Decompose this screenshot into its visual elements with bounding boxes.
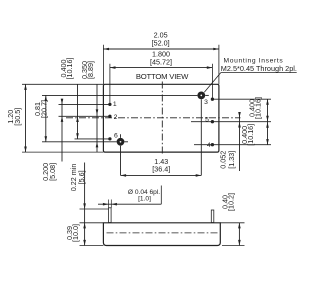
side view centerline xyxy=(107,232,219,234)
vertical centerline xyxy=(161,82,163,155)
svg-text:[36.4]: [36.4] xyxy=(152,165,170,174)
svg-text:BOTTOM VIEW: BOTTOM VIEW xyxy=(136,72,189,81)
extension pin top left xyxy=(80,208,109,210)
pin 2 row line xyxy=(59,115,110,117)
pin 4 dot xyxy=(211,143,214,146)
pin 1 row line xyxy=(59,103,110,105)
pin 6 dot xyxy=(108,137,111,140)
svg-text:1: 1 xyxy=(113,101,117,108)
svg-text:[52.0]: [52.0] xyxy=(152,38,170,47)
side view right pin xyxy=(211,210,214,223)
svg-text:[20.7]: [20.7] xyxy=(40,100,49,118)
pin 6 row line xyxy=(75,138,110,140)
pin diameter witness line left xyxy=(108,200,110,208)
leader to insert xyxy=(204,73,221,93)
svg-text:[5.08]: [5.08] xyxy=(48,163,57,181)
insert top row extension line xyxy=(42,94,197,96)
pin 4 row line xyxy=(194,144,271,146)
extension line right xyxy=(218,45,220,85)
pin diameter witness line right xyxy=(110,200,112,208)
extension body top right xyxy=(220,222,244,224)
svg-text:[10.2]: [10.2] xyxy=(227,193,236,211)
svg-text:[10.16]: [10.16] xyxy=(246,124,255,146)
svg-text:3: 3 xyxy=(204,99,208,106)
svg-text:[8.89]: [8.89] xyxy=(86,61,95,79)
extension body bottom right xyxy=(222,245,245,247)
pin 5 dot xyxy=(211,120,214,123)
svg-text:M2.5*0.45 Through 2pl.: M2.5*0.45 Through 2pl. xyxy=(221,64,297,73)
side view left pin xyxy=(109,208,112,223)
note underline xyxy=(221,72,297,74)
insert bottom row extension line xyxy=(42,141,117,143)
pin 5 row line xyxy=(191,121,271,123)
svg-text:[10.16]: [10.16] xyxy=(65,58,74,80)
extension to pin 1 xyxy=(109,64,111,103)
mounting insert bottom-left xyxy=(117,138,125,146)
extension body top left xyxy=(80,222,104,224)
mounting insert top-right xyxy=(197,92,205,100)
horizontal centerline xyxy=(66,117,241,119)
svg-text:6: 6 xyxy=(114,132,118,139)
extension rect top left xyxy=(22,83,103,85)
extension to pin 3 xyxy=(211,64,213,98)
leader vertical xyxy=(160,186,162,205)
insert top right stub xyxy=(205,94,209,96)
pin 3 dot xyxy=(211,98,214,101)
pin 2 dot xyxy=(108,115,111,118)
svg-text:[1.33]: [1.33] xyxy=(227,151,236,169)
insert bottom right stub xyxy=(124,141,128,143)
insert bottom top stub xyxy=(120,134,122,138)
extension body bottom left xyxy=(80,245,104,247)
svg-text:[10.0]: [10.0] xyxy=(71,224,80,242)
svg-text:4: 4 xyxy=(207,142,211,149)
extension rect bottom left xyxy=(22,151,103,153)
svg-text:[30.5]: [30.5] xyxy=(13,108,22,126)
insert top vertical extension xyxy=(200,99,202,175)
svg-text:[10.16]: [10.16] xyxy=(253,97,262,119)
svg-text:2: 2 xyxy=(114,114,118,121)
diameter dim line xyxy=(98,203,161,205)
dim line right 0.400s xyxy=(267,99,269,145)
pin 3 row line xyxy=(212,98,271,100)
extension line left xyxy=(102,45,104,85)
svg-text:5: 5 xyxy=(205,117,209,124)
pin 1 dot xyxy=(108,103,111,106)
side view body xyxy=(103,223,220,246)
svg-text:[45.72]: [45.72] xyxy=(150,58,172,67)
bottom view module outline rectangle xyxy=(103,84,218,152)
insert bottom vertical extension xyxy=(120,146,122,176)
svg-text:[1.0]: [1.0] xyxy=(138,195,151,202)
